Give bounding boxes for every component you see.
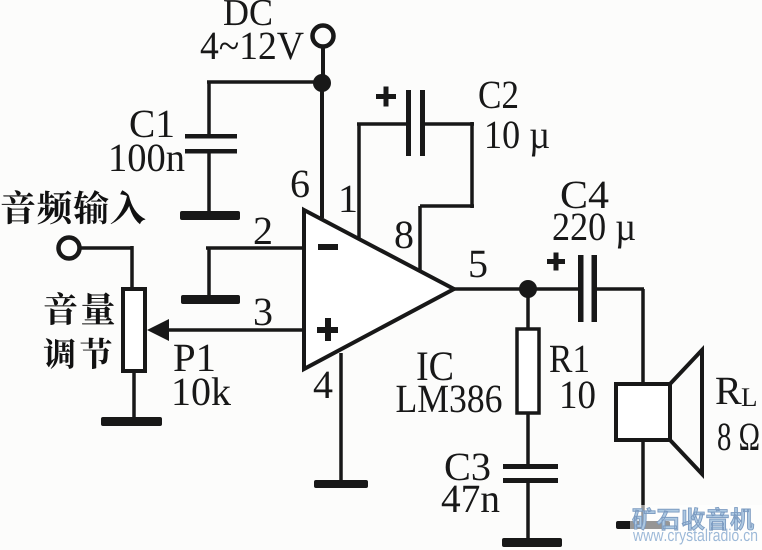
P1 wiper arrow <box>147 319 169 341</box>
ground speaker <box>616 521 670 529</box>
ground P1 <box>101 417 162 426</box>
ground pin 2 <box>181 295 240 304</box>
wire R1 to C3 <box>526 412 530 466</box>
label 8 ohm <box>718 423 758 450</box>
watermark 矿石收音机 <box>633 507 754 530</box>
label LM386 <box>397 385 502 412</box>
label 10 <box>562 381 594 408</box>
label 音量 volume <box>45 292 115 325</box>
inverting input minus <box>318 244 338 250</box>
wire input to P1 top <box>80 246 132 290</box>
wire C2 to pin 8 <box>420 122 474 272</box>
C4 polarity plus <box>547 253 565 271</box>
wire pin 2 ground stub <box>207 248 211 296</box>
capacitor C4 <box>578 255 644 322</box>
label C3 <box>446 454 490 481</box>
speaker horn <box>670 350 702 474</box>
label C2 <box>479 82 517 109</box>
resistor R1 body <box>517 329 539 413</box>
non-inverting input plus <box>317 318 338 341</box>
node V+ junction <box>313 74 331 92</box>
ground pin 4 <box>314 480 368 488</box>
pin 1 label <box>342 186 356 212</box>
label 音频输入 audio input <box>2 190 146 224</box>
wire C4 to speaker <box>641 289 645 386</box>
speaker RL body <box>616 384 670 440</box>
capacitor C1 <box>185 82 237 212</box>
wire junction to R1 <box>526 289 530 331</box>
capacitor C3 <box>503 464 558 539</box>
wire wiper to pin 3 <box>166 328 305 332</box>
label C1 <box>131 111 173 138</box>
label P1 <box>174 345 213 371</box>
terminal audio input <box>59 238 80 259</box>
watermark url <box>633 529 757 545</box>
op-amp IC LM386 triangle <box>304 210 454 369</box>
label 220u <box>554 213 635 248</box>
label 10u <box>487 121 549 156</box>
wire pin 2 <box>206 246 305 250</box>
node output junction <box>519 280 537 298</box>
pin 4 wire <box>339 353 343 481</box>
pin 6 label <box>292 171 309 198</box>
wire pin 5 <box>454 287 580 291</box>
ground C1 <box>180 211 240 220</box>
potentiometer P1 body <box>123 289 145 371</box>
label RL <box>716 378 756 406</box>
label 调节 adjust <box>44 338 112 369</box>
wire terminal to V+ node <box>321 47 325 82</box>
label 100n <box>111 144 184 171</box>
pin 8 label <box>396 221 413 248</box>
C2 polarity plus <box>376 87 396 107</box>
pin 3 label <box>255 299 272 326</box>
capacitor C2 <box>357 90 474 156</box>
label 47n <box>442 486 500 512</box>
label R1 <box>550 346 588 372</box>
wire pin 6 to V+ <box>320 82 324 218</box>
label 10k <box>175 377 231 405</box>
terminal DC+ <box>313 26 334 47</box>
ground C3 <box>502 538 562 547</box>
pin 5 label <box>470 251 486 278</box>
label C4 <box>562 182 609 209</box>
pin 2 label <box>255 218 271 244</box>
wire P1 bottom <box>132 370 136 418</box>
wire speaker to ground <box>641 440 645 522</box>
pin 4 label <box>314 372 333 398</box>
pin 1 wire <box>357 124 361 238</box>
wire V+ rail to C1 <box>207 80 323 84</box>
label IC <box>417 352 452 380</box>
watermark backdrop <box>630 505 762 550</box>
label DC 4~12V supply <box>201 0 304 60</box>
